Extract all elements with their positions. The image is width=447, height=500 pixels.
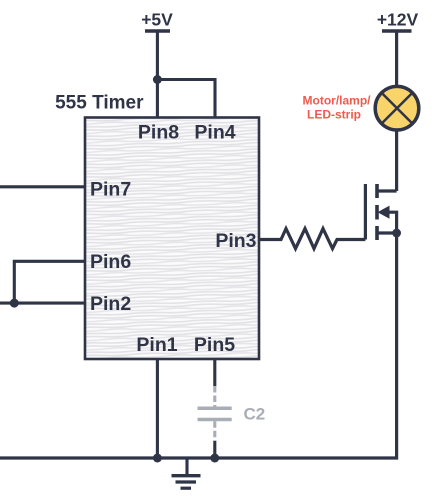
svg-text:Pin3: Pin3 [215, 230, 256, 252]
drain tap [377, 189, 397, 192]
wire Pin6 [14, 261, 85, 303]
channel dash body [375, 205, 379, 220]
svg-text:LED-strip: LED-strip [307, 108, 361, 122]
lead bottom solid [213, 441, 216, 458]
junction Pin1-rail [153, 454, 162, 463]
lead dashed bottom [213, 421, 216, 441]
resistor R1 (Pin3 to gate) [259, 229, 365, 249]
lead dashed top [213, 386, 216, 407]
wire +12V to lamp [395, 31, 398, 88]
power +12V [377, 10, 419, 32]
svg-text:Pin8: Pin8 [138, 122, 179, 144]
wire +5V to Pin8 [156, 31, 159, 118]
wire branch to Pin4 [157, 80, 215, 118]
bottom plate [198, 418, 232, 422]
svg-text:Pin1: Pin1 [136, 334, 177, 356]
body arrow [388, 212, 397, 233]
junction Pin5-rail [210, 454, 219, 463]
gate plate [364, 184, 367, 240]
top plate [198, 407, 232, 411]
wire Pin7 [0, 185, 85, 188]
svg-text:Pin5: Pin5 [194, 334, 235, 356]
channel dash source [375, 226, 379, 240]
power +5V [141, 10, 173, 32]
wire Pin1 to ground rail [156, 359, 159, 459]
svg-text:555 Timer: 555 Timer [55, 93, 144, 114]
lead Pin5 solid [213, 359, 216, 387]
svg-text:Pin7: Pin7 [90, 179, 131, 201]
ground [172, 458, 201, 488]
svg-text:C2: C2 [244, 405, 266, 424]
wire Pin2 [0, 302, 85, 305]
wire lamp to drain [395, 128, 398, 191]
junction Pin2/Pin6 [10, 299, 19, 308]
source tap [377, 231, 397, 234]
svg-text:Pin2: Pin2 [90, 293, 131, 315]
svg-text:Pin4: Pin4 [194, 122, 235, 144]
junction source/body [392, 229, 401, 238]
lamp (motor/lamp/LED-strip load) [375, 86, 419, 130]
label Motor/lamp/LED-strip [303, 94, 372, 122]
IC U1 555 Timer body [85, 118, 259, 360]
svg-text:Pin6: Pin6 [90, 251, 131, 273]
junction +5V branch [153, 75, 162, 84]
svg-text:+12V: +12V [377, 10, 419, 30]
transistor Q1 MOSFET [365, 184, 401, 240]
ground rail [0, 233, 397, 458]
capacitor C2 (Pin5 decoupling, optional/grayed) [198, 359, 232, 459]
svg-text:Motor/lamp/: Motor/lamp/ [303, 94, 372, 108]
svg-text:+5V: +5V [141, 10, 173, 30]
channel dash drain [375, 184, 379, 198]
